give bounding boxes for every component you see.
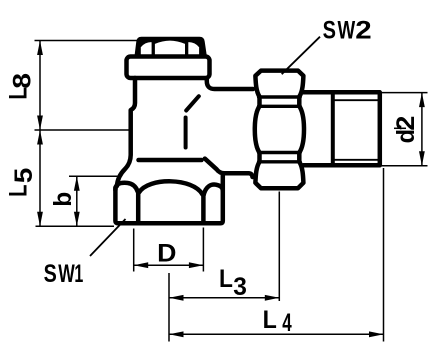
union nut SW1 left divider: [136, 191, 141, 223]
hex nut SW2 chamfer lines: [259, 97, 301, 162]
arrowhead b top: [74, 176, 80, 191]
svg-text:1: 1: [74, 261, 83, 288]
extension line L8/L5 boundary: [35, 129, 132, 131]
union nut SW1 center face arc: [139, 181, 203, 194]
valve body left side: [117, 78, 135, 186]
svg-text:W: W: [338, 16, 356, 44]
arrowhead D right: [189, 262, 204, 268]
internal vertical dash: [184, 118, 188, 148]
extension line L4 right: [383, 168, 385, 342]
svg-text:2: 2: [391, 116, 420, 131]
arrowhead D left: [134, 262, 149, 268]
thread runout line: [331, 92, 335, 165]
svg-text:L: L: [263, 306, 277, 334]
dimension line L4: [169, 333, 384, 335]
thread core line bottom: [333, 159, 380, 161]
axis centerline dash: [394, 127, 406, 129]
dimension line d2: [421, 93, 423, 166]
cap right face window: [188, 42, 199, 56]
union nut SW1 right face arc: [204, 185, 223, 195]
valve bonnet hex cap silhouette: [134, 37, 207, 59]
svg-text:W: W: [58, 259, 75, 288]
label d2: [391, 116, 420, 144]
union nut SW1 outline: [115, 176, 222, 224]
extension line valve axis: [168, 273, 170, 342]
arrowhead L8 bottom: [37, 116, 43, 131]
svg-text:8: 8: [8, 73, 36, 89]
arrowhead d2 bottom: [419, 151, 425, 166]
extension line b top: [69, 175, 120, 177]
arrowhead L3 right: [265, 295, 280, 301]
svg-text:d: d: [392, 129, 420, 143]
svg-text:S: S: [323, 17, 336, 45]
extension line d2 bottom: [381, 165, 428, 167]
dimension line D: [134, 264, 204, 266]
hex nut SW2 silhouette: [255, 71, 304, 189]
extension line d2 top: [381, 92, 428, 94]
svg-text:b: b: [50, 192, 77, 207]
dimension line L3: [169, 297, 279, 299]
label SW2: [323, 16, 372, 45]
extension line L3 right: [278, 192, 280, 302]
internal diagonal dash: [186, 96, 199, 110]
arrowhead L8 top: [37, 41, 43, 56]
arrowhead d2 top: [419, 93, 425, 108]
arrowhead b bottom: [74, 212, 80, 227]
label SW1: [44, 259, 84, 288]
label L5: [3, 167, 37, 196]
svg-text:L: L: [3, 184, 32, 196]
dimension line L5: [39, 130, 41, 226]
cap center face window: [155, 41, 185, 56]
valve body right side and outlet pipe top edge: [207, 78, 253, 89]
extension line nut bottom: [36, 225, 115, 227]
extension line D right: [202, 228, 204, 272]
cap left face window: [141, 42, 152, 56]
svg-text:L: L: [219, 265, 233, 293]
svg-text:4: 4: [282, 309, 292, 337]
male thread d2 outline: [303, 92, 379, 165]
chamfer and outlet pipe bottom edge: [205, 159, 253, 177]
svg-text:L: L: [3, 87, 32, 99]
label L3: [219, 265, 247, 301]
bonnet flange: [127, 57, 210, 79]
thread core line top: [333, 99, 380, 101]
label L8: [3, 73, 36, 100]
dimension line L8: [39, 41, 41, 131]
arrowhead L5 bottom: [37, 212, 43, 227]
leader line SW1: [90, 219, 126, 256]
dimension line b: [76, 176, 78, 226]
arrowhead L3 left: [169, 295, 184, 301]
arrowhead L5 top: [37, 130, 43, 145]
svg-text:3: 3: [233, 274, 247, 301]
svg-text:2: 2: [355, 16, 371, 44]
leader line SW2: [282, 37, 320, 74]
svg-text:D: D: [157, 240, 176, 267]
svg-text:S: S: [44, 260, 57, 288]
union nut SW1 left face arc: [115, 183, 137, 192]
union nut SW1 right divider: [201, 194, 206, 223]
arrowhead L4 left: [169, 331, 184, 337]
extension line top of valve: [35, 40, 138, 42]
arrowhead L4 right: [369, 331, 384, 337]
label L4: [263, 306, 292, 337]
svg-text:5: 5: [9, 167, 37, 183]
extension line D left: [133, 229, 135, 272]
body shoulder line: [139, 158, 202, 163]
